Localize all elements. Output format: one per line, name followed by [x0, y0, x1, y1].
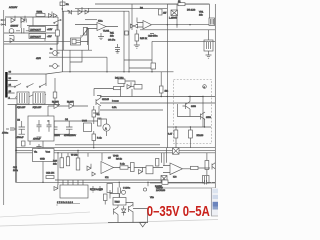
svg-text:0.47: 0.47: [168, 134, 173, 136]
wire right low: [198, 153, 210, 176]
capacitor C6: [66, 121, 73, 134]
svg-text:7805: 7805: [82, 121, 88, 123]
top right: wire y4.2: [167, 3, 209, 5]
wire r12: [136, 30, 138, 45]
resistor R2: [68, 10, 72, 14]
svg-text:4700uF: 4700uF: [33, 139, 41, 141]
wire x177: [176, 4, 178, 28]
capacitor CX: [24, 19, 26, 23]
ground G2: [36, 144, 41, 150]
resistor R7: [22, 141, 26, 146]
capacitor C7: [37, 120, 42, 137]
lamp LP2: [53, 64, 58, 69]
page edge line 2: [0, 220, 218, 227]
switch bank S3: [15, 84, 46, 87]
diode D3: [85, 8, 89, 14]
wire main mid rail: [63, 71, 174, 73]
wire rail small: [85, 19, 97, 21]
wire opamp out: [88, 27, 119, 46]
diode D9: [127, 82, 131, 89]
resistor R25: [104, 194, 108, 201]
svg-text:8550: 8550: [206, 117, 212, 119]
top-left AC input wire: [5, 16, 58, 18]
fuse F1: [60, 2, 65, 6]
resistor R8: [92, 134, 96, 141]
capacitor C8: [47, 120, 52, 132]
svg-text:3DD15: 3DD15: [102, 99, 110, 101]
op-amp U3: [97, 23, 106, 31]
relay K2: [33, 92, 45, 104]
svg-text:2k2: 2k2: [165, 91, 169, 93]
diode D14: [92, 172, 96, 176]
transistor Q8: [129, 205, 134, 213]
wire u7: [163, 166, 191, 173]
wire long bottom: [16, 181, 205, 183]
relay box RL: [71, 38, 81, 45]
wire top rail A2: [75, 8, 167, 10]
diode D20: [21, 16, 25, 23]
svg-text:R 1k: R 1k: [97, 138, 102, 140]
pin circle 3: [143, 188, 146, 191]
resistor R17: [205, 161, 209, 170]
op-amp U7: [170, 163, 183, 175]
transformer T1 secondary bar: [5, 72, 7, 98]
svg-text:10k: 10k: [199, 15, 203, 17]
wire right mid rail2: [100, 102, 215, 104]
wire r8: [93, 131, 95, 148]
svg-text:30: 30: [9, 78, 12, 80]
svg-text:C12 104: C12 104: [46, 173, 55, 175]
svg-text:10k: 10k: [53, 164, 57, 166]
bus line 1: [55, 144, 160, 146]
wire verticals mid: [64, 11, 89, 50]
capacitor C1: [16, 28, 29, 34]
wire sub: [105, 190, 148, 223]
svg-text:LM7812CT: LM7812CT: [30, 30, 41, 32]
component between rails: [125, 31, 128, 35]
resistor R23: [156, 159, 159, 167]
svg-text:RL207: RL207: [67, 102, 74, 104]
diode D15: [139, 167, 143, 174]
wire u6 out: [152, 24, 210, 26]
svg-text:4700uF/50V: 4700uF/50V: [64, 135, 76, 137]
wire bottom rail: [55, 179, 165, 181]
border frame bottom-right 2: [161, 187, 215, 189]
cluster mid: box X1: [118, 79, 125, 84]
resistor R15: [174, 130, 178, 138]
ground G6: [97, 186, 102, 191]
svg-text:IC2: IC2: [105, 177, 109, 179]
svg-text:LM7912CT: LM7912CT: [30, 37, 41, 39]
svg-text:5W51: 5W51: [37, 12, 43, 14]
svg-text:0.1: 0.1: [97, 114, 101, 116]
pin circle 1: [203, 85, 207, 89]
neon lamp NE1: [9, 29, 14, 34]
capacitor C2: [115, 44, 120, 53]
transistor Q6: [212, 163, 216, 170]
transistor Q2 pack: [209, 18, 215, 26]
svg-text:Ic max: Ic max: [112, 101, 119, 103]
wire left drops: [162, 148, 167, 166]
resistor R20: [76, 158, 80, 170]
svg-text:D5 4148: D5 4148: [187, 10, 196, 12]
relay K1: [17, 92, 29, 104]
capacitor C15: [204, 180, 215, 185]
svg-text:C7: C7: [108, 158, 112, 160]
X box low2: [161, 176, 167, 182]
svg-text:8050: 8050: [191, 106, 197, 108]
svg-text:100u: 100u: [13, 170, 19, 172]
svg-text:C9 47u: C9 47u: [108, 40, 116, 42]
svg-text:4B/U: 4B/U: [36, 58, 41, 60]
resistor R16: [191, 166, 199, 169]
switch bank S4: [15, 95, 46, 98]
wire cluster: [121, 81, 136, 97]
bus line 4: [16, 152, 215, 154]
svg-text:VR1: VR1: [199, 12, 204, 14]
svg-text:W 10k: W 10k: [71, 155, 78, 157]
wire diode row: [48, 105, 88, 107]
wire bottom of block: [4, 17, 70, 44]
resistor R12: [135, 34, 139, 41]
svg-text:0–35V 0–5A: 0–35V 0–5A: [147, 204, 210, 220]
svg-text:24: 24: [9, 85, 12, 87]
wire q4: [183, 97, 204, 128]
svg-text:4700u: 4700u: [2, 133, 9, 135]
svg-text:0.5A: 0.5A: [112, 106, 117, 109]
diode D8: [69, 101, 74, 109]
border frame bottom-right: [150, 182, 215, 184]
svg-text:L-2580T: L-2580T: [169, 18, 178, 20]
resistor R6: [98, 118, 102, 126]
svg-text:TL081: TL081: [103, 31, 110, 33]
box on x57: [55, 30, 59, 36]
diode D13: [87, 164, 91, 171]
filter box FB: [28, 116, 54, 141]
transistor Q5: [201, 112, 206, 120]
wire right mid rail3: [100, 109, 163, 111]
regulator U4: [84, 123, 92, 132]
transistor Q7: [114, 207, 119, 215]
svg-text:C 100u: C 100u: [123, 188, 131, 190]
wire caps top: [48, 106, 98, 134]
resistor R5: [92, 110, 96, 117]
svg-text:IC3: IC3: [173, 177, 177, 179]
capacitor C10: [6, 128, 16, 130]
wire lamp rail: [49, 50, 107, 72]
transistor Q4: [186, 102, 191, 110]
wire relay bus: [8, 74, 60, 105]
svg-text:AC220V: AC220V: [9, 6, 18, 9]
wire h50.2: [57, 49, 92, 51]
resistor R4: [53, 92, 57, 98]
wire left rail pair: [16, 105, 17, 183]
diode D4: [10, 36, 14, 43]
svg-text:R 1k: R 1k: [120, 164, 125, 166]
svg-text:10k: 10k: [110, 36, 114, 38]
svg-text:36: 36: [9, 72, 12, 74]
wire q3: [208, 30, 210, 55]
op-amp U6: [143, 21, 152, 29]
component on bottom line: [162, 180, 168, 184]
wire y60: [124, 59, 152, 61]
resistor R21: [120, 166, 128, 169]
wire u5: [42, 162, 44, 183]
svg-text:A: A: [105, 126, 107, 130]
striped box SB: [203, 176, 210, 184]
box X3: [146, 166, 153, 174]
wire r14: [160, 72, 162, 97]
wire fb stubs: [30, 141, 43, 148]
wire top vertical x124: [123, 11, 125, 72]
wire to opamp: [75, 25, 97, 29]
svg-text:C2: C2: [17, 120, 21, 122]
diode D18: [122, 206, 126, 216]
capacitor C14: [150, 34, 154, 36]
wire top rail A: [95, 3, 210, 5]
wire Q1: [98, 106, 100, 113]
resistor R18: [60, 158, 64, 168]
svg-text:4700uF: 4700uF: [16, 137, 24, 139]
pins U9: [63, 180, 83, 185]
wire u6 in: [137, 18, 143, 28]
capacitor C18: [19, 121, 26, 134]
svg-text:R9 2k: R9 2k: [116, 159, 123, 161]
svg-text:JQX-13F: JQX-13F: [17, 107, 26, 109]
resistor R1: [36, 14, 45, 17]
svg-text:7B15: 7B15: [115, 202, 121, 204]
box B4: [107, 184, 113, 193]
resistor R14: [160, 86, 164, 93]
resistor R19: [66, 157, 69, 166]
wire tap1: [8, 72, 63, 74]
diode D1b: [54, 14, 58, 18]
regulator U2: [29, 34, 46, 39]
resistor R24: [46, 176, 54, 179]
capacitor C5: [51, 121, 58, 134]
switch S2: [55, 20, 60, 23]
diode D2: [78, 7, 82, 15]
wire q2: [209, 4, 211, 18]
wire tap rows: [8, 81, 20, 99]
bus line 3: [16, 149, 215, 151]
svg-text:BD246: BD246: [197, 135, 204, 137]
ammeter M1: [103, 124, 110, 131]
resistor R10: [159, 9, 163, 15]
AC plug P1: [2, 18, 6, 26]
pin circle 2: [122, 190, 126, 194]
wire x167: [166, 4, 168, 148]
capacitor C13: [189, 130, 193, 138]
wire q5: [178, 104, 201, 117]
wire drop x21 x33: [21, 17, 45, 41]
svg-text:+12V: +12V: [47, 29, 53, 31]
ground G7: [140, 223, 146, 228]
svg-text:JQX-13F: JQX-13F: [33, 107, 42, 109]
wire meter: [100, 119, 107, 136]
power transistor Q3: [204, 40, 213, 51]
diode D7: [54, 101, 59, 109]
regulator U1: [29, 27, 46, 32]
diode D1a: [49, 12, 53, 18]
border bottom-left stub: [57, 204, 80, 207]
sub regulator box U10: [113, 198, 126, 206]
ground G5: [90, 186, 95, 192]
svg-text:1N4007: 1N4007: [11, 26, 19, 28]
svg-text:Vbb: Vbb: [150, 197, 155, 199]
box X2: [134, 85, 142, 90]
svg-text:5A: 5A: [66, 3, 69, 6]
wire y41.4: [152, 40, 215, 42]
dashed box: [174, 80, 212, 144]
resistor R13: [114, 87, 121, 90]
lamp LP1: [53, 51, 58, 56]
svg-text:IC1a: IC1a: [98, 21, 103, 23]
border frame left: [3, 10, 5, 205]
wire x82 loop: [70, 50, 82, 62]
pot RP1: [83, 28, 86, 36]
svg-text:4k7: 4k7: [163, 13, 167, 15]
ground G3: [206, 55, 212, 58]
wire x70 drop: [69, 50, 71, 72]
wire top vertical x132: [131, 4, 133, 30]
diode D19: [11, 16, 15, 23]
opto box U9: [60, 185, 88, 198]
svg-text:RL207: RL207: [52, 102, 59, 104]
svg-text:8c: 8c: [50, 49, 53, 51]
capacitor C16: [118, 182, 120, 196]
wire AC feed vertical: [57, 0, 62, 72]
svg-text:2SC5200: 2SC5200: [156, 190, 166, 192]
svg-text:Vout: Vout: [46, 151, 51, 154]
svg-text:GND: GND: [40, 159, 45, 161]
regulator U5: [33, 149, 55, 162]
wire u8 out: [114, 167, 164, 169]
X box low: [173, 148, 180, 155]
bus line 2: [16, 147, 215, 149]
wire top vertical x129: [128, 11, 130, 72]
diode pair D17: [131, 24, 138, 28]
wire y68: [129, 67, 152, 69]
resistor R22: [131, 163, 135, 172]
diode D16: [54, 185, 58, 191]
ground G4: [134, 45, 140, 48]
watermark window icon: [211, 188, 218, 216]
svg-text:-12V: -12V: [47, 36, 52, 38]
transistor Q1: [96, 96, 101, 107]
svg-text:R26/W: R26/W: [155, 186, 163, 188]
wire row2: [4, 26, 58, 34]
wire inner top: [167, 126, 211, 128]
page edge line 1: [0, 212, 90, 217]
wire y88.5: [94, 89, 114, 97]
svg-text:R20: R20: [53, 161, 58, 163]
border frame right: [214, 4, 216, 188]
op-amp U8: [101, 162, 114, 174]
resistor R9: [178, 3, 185, 6]
bottom cluster: wire drops from bus: [58, 150, 102, 185]
wire inner stubs: [176, 119, 205, 148]
svg-text:R11: R11: [110, 33, 115, 35]
wire x152: [151, 41, 153, 71]
svg-text:D11 D12: D11 D12: [115, 78, 124, 80]
ground G1: [98, 33, 104, 40]
ref diode VD1: [171, 10, 178, 16]
wire sub drops: [110, 182, 148, 201]
capacitor C17: [151, 63, 156, 69]
svg-text:8 7 6 5 4 3 2 1 0: 8 7 6 5 4 3 2 1 0: [57, 202, 74, 204]
svg-text:TP4B: TP4B: [113, 156, 119, 158]
svg-text:R15 2k: R15 2k: [140, 38, 148, 40]
wire mid: [93, 106, 99, 124]
wire top rail B: [62, 10, 129, 12]
wire low rail: [140, 29, 215, 31]
wire right mid rail1: [100, 96, 215, 98]
